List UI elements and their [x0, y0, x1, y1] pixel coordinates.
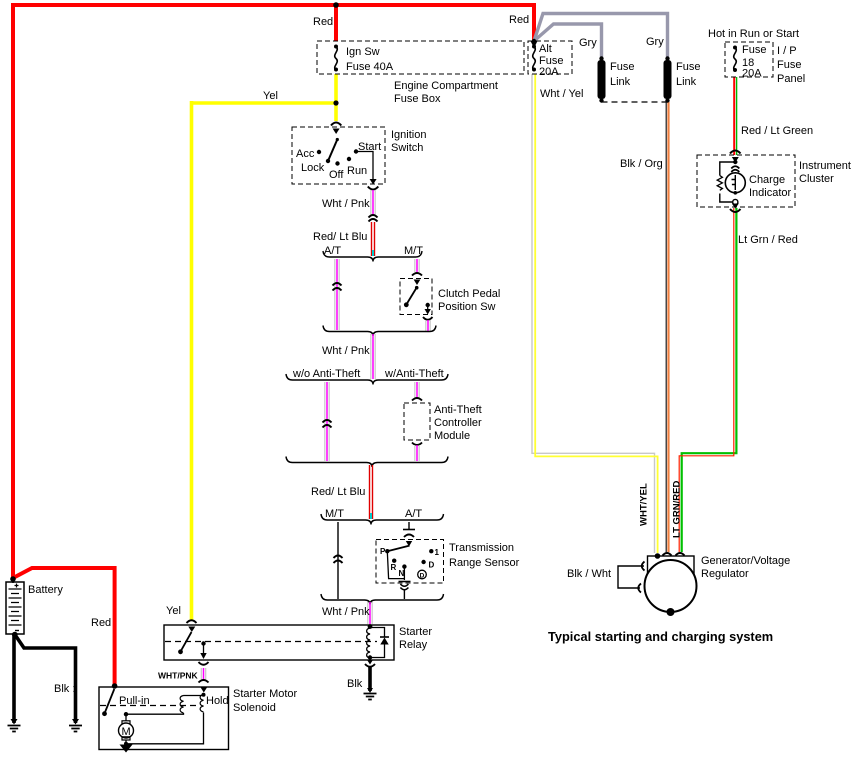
- node Acc contact: [317, 150, 321, 154]
- wire Wht/Pnk M/T branch upper: [415, 259, 419, 272]
- anti-theft controller module box (dashed): [404, 403, 430, 440]
- node Start contact: [354, 149, 358, 153]
- bracket split A/T M/T: [323, 251, 422, 262]
- wire Blk/Org from Fuse Link 2 to generator: [665, 102, 667, 552]
- svg-text:A/T: A/T: [405, 508, 422, 520]
- connector below relay right: [367, 660, 373, 665]
- svg-text:Pull-in: Pull-in: [119, 695, 150, 707]
- clutch pedal position switch box (dashed): [400, 279, 432, 315]
- node relay coil bottom junction: [368, 655, 372, 659]
- svg-text:Red/ Lt Blu: Red/ Lt Blu: [313, 231, 367, 243]
- wire Wht/Pnk w/ branch upper: [415, 382, 419, 398]
- bracket merge anti-theft: [286, 457, 448, 468]
- bracket merge lower: [321, 594, 444, 605]
- Engine compartment fuse box (dashed): [317, 41, 524, 74]
- wire motor to ground: [125, 740, 127, 744]
- wire Wht/Pnk w/o branch: [325, 382, 329, 461]
- node cluster bottom junction circle: [733, 199, 738, 204]
- motor M starter: [119, 721, 134, 740]
- svg-text:Acc: Acc: [296, 148, 315, 160]
- node Off contact: [335, 161, 339, 165]
- svg-text:Typical starting and charging: Typical starting and charging system: [548, 629, 773, 644]
- wire Blk battery left to ground: [12, 635, 16, 724]
- wire Red battery feed: left vertical and top horizontal: [13, 5, 536, 579]
- svg-text:w/Anti-Theft: w/Anti-Theft: [384, 368, 444, 380]
- battery: [6, 578, 24, 634]
- svg-text:Wht / Yel: Wht / Yel: [540, 88, 583, 100]
- connector out of clutch box: [423, 317, 433, 320]
- node clutch output contact with arrow: [426, 303, 430, 307]
- wire A/T branch into range sensor: [408, 522, 410, 529]
- fuse Alt Fuse 20A: [532, 45, 536, 72]
- svg-text:Wht / Pnk: Wht / Pnk: [322, 606, 370, 618]
- svg-text:Starter Motor: Starter Motor: [233, 688, 298, 700]
- wire Wht/Yel from Alt fuse to generator: [532, 74, 655, 553]
- connector into solenoid: [199, 680, 209, 683]
- node contact N: [402, 564, 406, 568]
- svg-text:D: D: [420, 572, 425, 579]
- svg-text:Lt Grn / Red: Lt Grn / Red: [738, 234, 798, 246]
- wire dashed inside solenoid: [100, 705, 198, 707]
- connector into clutch switch: [412, 273, 422, 276]
- connector into ignition switch: [331, 123, 341, 126]
- svg-text:M/T: M/T: [404, 245, 423, 257]
- wire Red battery to solenoid: [13, 568, 115, 685]
- svg-text:Panel: Panel: [777, 73, 805, 85]
- node relay output with arrow: [201, 641, 205, 645]
- svg-text:Starter: Starter: [399, 626, 432, 638]
- svg-text:D: D: [429, 561, 435, 570]
- diode relay: [370, 628, 385, 658]
- wire Wht/Pnk to anti-theft split: [371, 334, 375, 379]
- connector pair inline A/T branch: [333, 283, 342, 291]
- connector into cluster: [730, 151, 741, 154]
- wire out of range sensor: [403, 590, 405, 599]
- connector out of cluster: [732, 204, 739, 209]
- wire Red/Lt Green from I/P fuse to instrument cluster: [733, 77, 735, 155]
- svg-text:WHT/PNK: WHT/PNK: [158, 671, 199, 681]
- node solenoid red junction: [112, 683, 118, 689]
- svg-text:Charge: Charge: [749, 174, 785, 186]
- svg-text:M/T: M/T: [325, 508, 344, 520]
- connector pair inline: [369, 215, 378, 222]
- wire Start to output: [356, 152, 373, 182]
- node contact R: [392, 559, 396, 563]
- node relay coil top junction: [368, 624, 373, 629]
- node cluster top junction: [733, 160, 737, 164]
- starter motor solenoid box: [99, 687, 229, 750]
- wire Blk battery right to ground: [15, 635, 76, 724]
- svg-text:Module: Module: [434, 430, 470, 442]
- svg-text:Link: Link: [610, 76, 631, 88]
- connector pair inline M/T branch: [334, 556, 343, 564]
- fuse link 2: [664, 56, 672, 102]
- svg-text:1: 1: [435, 548, 440, 557]
- generator / voltage regulator: [618, 556, 697, 616]
- svg-text:Fuse Box: Fuse Box: [394, 93, 441, 105]
- node contact D circled: [418, 570, 427, 579]
- svg-text:Wht / Pnk: Wht / Pnk: [322, 345, 370, 357]
- wire Lt Grn/Red from cluster to generator: [682, 208, 737, 552]
- ground battery left: [8, 719, 21, 732]
- svg-text:Yel: Yel: [263, 90, 278, 102]
- svg-text:Lock: Lock: [301, 162, 325, 174]
- transmission range sensor box (dashed): [376, 540, 444, 584]
- svg-text:Clutch Pedal: Clutch Pedal: [438, 288, 500, 300]
- svg-text:20A: 20A: [539, 66, 559, 78]
- node generator top junction: [655, 553, 661, 559]
- switch ignition lever: [328, 139, 338, 161]
- wire Wht/Pnk w/ branch lower: [415, 445, 419, 461]
- ground relay: [364, 688, 377, 700]
- wire Gry outer to Fuse Link 2: [534, 14, 668, 58]
- svg-text:Solenoid: Solenoid: [233, 702, 276, 714]
- wire dashed link between fuse links: [602, 101, 668, 103]
- wire Gry inner to Fuse Link 1: [534, 24, 602, 57]
- wire Wht/Pnk to starter relay: [368, 602, 372, 624]
- ground solenoid: [120, 745, 133, 753]
- coil pull-in winding: [180, 696, 183, 713]
- wire hold coil to ground: [126, 713, 204, 744]
- svg-text:w/o Anti-Theft: w/o Anti-Theft: [292, 368, 360, 380]
- connector arrow into range sensor: [406, 541, 412, 547]
- wire Red drop to Ign Sw fuse: [334, 5, 338, 41]
- lamp charge indicator: [725, 173, 745, 193]
- resistor in cluster: [717, 176, 722, 191]
- connector pair above charge indicator: [731, 166, 739, 172]
- wire P to N link: [387, 551, 404, 580]
- fuse link 1: [598, 56, 606, 102]
- svg-text:Fuse: Fuse: [676, 61, 700, 73]
- switch solenoid lever: [105, 689, 115, 714]
- connector bar and arc into range sensor: [403, 529, 415, 531]
- bracket merge below clutch: [323, 326, 436, 337]
- svg-text:Regulator: Regulator: [701, 568, 749, 580]
- svg-text:Off: Off: [329, 169, 344, 181]
- svg-text:Alt: Alt: [539, 43, 552, 55]
- svg-text:Blk / Org: Blk / Org: [620, 158, 663, 170]
- svg-text:Red: Red: [509, 14, 529, 26]
- svg-text:Start: Start: [358, 141, 381, 153]
- connector arrow into clutch box: [414, 280, 421, 286]
- svg-text:Transmission: Transmission: [449, 542, 514, 554]
- connector into anti-theft module: [412, 398, 422, 401]
- connector below relay: [199, 662, 209, 665]
- wire Red/Lt Blu 2: [370, 465, 373, 519]
- connector arcs on generator top: [663, 553, 685, 556]
- node contact 1: [429, 549, 433, 553]
- svg-text:Link: Link: [676, 76, 697, 88]
- wire Wht/Pnk M/T branch lower: [426, 320, 430, 331]
- switch range sensor lever: [387, 546, 409, 552]
- wire cluster left branch: [720, 162, 736, 202]
- wire Wht/Pnk A/T branch: [335, 259, 339, 330]
- svg-text:20A: 20A: [742, 68, 762, 80]
- svg-text:LT GRN/RED: LT GRN/RED: [672, 481, 683, 538]
- switch clutch lever: [406, 288, 416, 305]
- svg-text:Hot in Run or Start: Hot in Run or Start: [708, 28, 799, 40]
- wire Red drop to Alt fuse: [532, 3, 536, 40]
- svg-text:WHT/YEL: WHT/YEL: [639, 483, 650, 526]
- svg-text:Switch: Switch: [391, 142, 423, 154]
- svg-text:Battery: Battery: [28, 584, 63, 596]
- svg-text:Ignition: Ignition: [391, 129, 426, 141]
- svg-text:Wht / Pnk: Wht / Pnk: [322, 198, 370, 210]
- svg-text:Position Sw: Position Sw: [438, 301, 496, 313]
- wire dashed inside relay: [165, 641, 377, 643]
- svg-text:Yel: Yel: [166, 605, 181, 617]
- node gray/red junction arrow at Alt fuse: [531, 41, 538, 48]
- bracket split M/T A/T lower: [321, 514, 444, 525]
- svg-text:Fuse: Fuse: [610, 61, 634, 73]
- connector out of ignition switch: [370, 179, 377, 185]
- starter relay box: [164, 625, 394, 660]
- instrument cluster box (dashed): [697, 155, 795, 207]
- svg-text:Gry: Gry: [646, 36, 664, 48]
- svg-text:Ign Sw: Ign Sw: [346, 46, 380, 58]
- svg-text:Range Sensor: Range Sensor: [449, 557, 520, 569]
- svg-text:Blk / Wht: Blk / Wht: [567, 568, 611, 580]
- svg-text:Generator/Voltage: Generator/Voltage: [701, 555, 790, 567]
- svg-text:P: P: [380, 547, 386, 556]
- connector bar and arcs out of range sensor: [399, 581, 411, 583]
- Alt fuse box (dashed): [528, 41, 572, 74]
- node Run contact: [347, 157, 351, 161]
- node contact D: [421, 560, 425, 564]
- svg-text:A/T: A/T: [324, 245, 341, 257]
- svg-text:Indicator: Indicator: [749, 187, 792, 199]
- node battery top junction: [10, 576, 16, 582]
- node battery bottom junction: [12, 632, 18, 638]
- svg-text:N: N: [399, 569, 405, 578]
- wire Yel from fuse box to ignition switch: [334, 74, 338, 121]
- connector out of anti-theft module: [412, 443, 422, 446]
- svg-text:Fuse 40A: Fuse 40A: [346, 61, 394, 73]
- wire Yel horizontal branch: [192, 101, 335, 105]
- node junction at top red: [333, 2, 339, 8]
- ground battery right: [69, 719, 82, 732]
- coil relay winding: [367, 628, 370, 658]
- svg-text:R: R: [391, 563, 397, 572]
- svg-text:Blk: Blk: [347, 678, 363, 690]
- svg-text:Anti-Theft: Anti-Theft: [434, 404, 482, 416]
- wire Blk relay to ground: [368, 666, 372, 691]
- svg-text:Cluster: Cluster: [799, 173, 834, 185]
- svg-text:Gry: Gry: [579, 37, 597, 49]
- wire Wht/Pnk from ignition switch: [371, 190, 375, 215]
- svg-text:Red: Red: [91, 617, 111, 629]
- svg-text:Fuse: Fuse: [742, 44, 766, 56]
- ignition switch box (dashed): [292, 127, 385, 184]
- fuse Fuse 18 20A: [733, 46, 737, 73]
- wire M/T plain branch: [337, 522, 339, 599]
- connector pair inline w/o branch: [323, 420, 332, 428]
- svg-text:I / P: I / P: [777, 45, 797, 57]
- fuse Ign Sw Fuse 40A: [334, 45, 338, 72]
- wire Red/Lt Blu: [372, 222, 375, 256]
- svg-text:Controller: Controller: [434, 417, 482, 429]
- node yellow junction: [333, 100, 338, 105]
- svg-text:Hold: Hold: [206, 695, 229, 707]
- svg-text:Red / Lt Green: Red / Lt Green: [741, 125, 813, 137]
- svg-text:Red: Red: [313, 16, 333, 28]
- svg-text:Engine Compartment: Engine Compartment: [394, 80, 498, 92]
- bracket split anti-theft: [286, 374, 448, 385]
- svg-text:Instrument: Instrument: [799, 160, 851, 172]
- svg-text:Fuse: Fuse: [777, 59, 801, 71]
- connector into relay from yellow: [187, 620, 197, 623]
- wire pull-in coil to motor: [126, 713, 184, 721]
- svg-text:Red/ Lt Blu: Red/ Lt Blu: [311, 486, 365, 498]
- svg-text:Relay: Relay: [399, 639, 428, 651]
- wire coil tops link: [184, 695, 204, 697]
- wire Yel long vertical to starter relay: [190, 101, 194, 621]
- switch relay lever: [181, 632, 192, 652]
- svg-text:Run: Run: [347, 165, 367, 177]
- coil hold winding: [200, 695, 203, 712]
- svg-text:Blk :: Blk :: [54, 683, 75, 695]
- I/P fuse panel box (dashed): [725, 42, 773, 77]
- wire Wht/Pnk relay to solenoid: [201, 668, 205, 680]
